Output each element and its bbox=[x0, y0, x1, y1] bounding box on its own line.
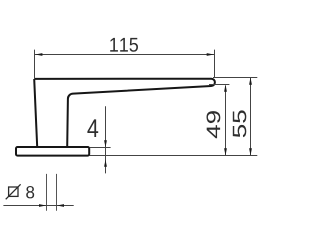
diameter 8: right projection line bbox=[56, 174, 58, 211]
dimension 115: left arrow bbox=[35, 53, 42, 56]
dimension 115: label bbox=[110, 38, 138, 52]
extension line bottom of lever tip (for 49) bbox=[209, 84, 229, 86]
dimension 55: top arrow bbox=[249, 78, 252, 85]
dimension 49: line bbox=[225, 86, 227, 156]
rose plate bbox=[16, 147, 89, 156]
dimension 55: label bbox=[233, 110, 247, 137]
diameter 8: left projection line bbox=[46, 174, 48, 211]
dimension 49: label bbox=[207, 111, 221, 138]
diameter 8: left arrow (pointing right) bbox=[39, 204, 46, 207]
dimension 55: line bbox=[250, 78, 252, 156]
diameter 8: label bbox=[26, 186, 34, 198]
dimension 49: bottom arrow bbox=[224, 148, 227, 155]
dimension 4: upper extension line (rose top) bbox=[90, 147, 111, 149]
diameter 8: square symbol bbox=[9, 187, 18, 196]
dimension 115: line bbox=[35, 54, 214, 56]
dimension 115: left extension line bbox=[34, 50, 36, 79]
dimension 4: lower arrow (pointing up) bbox=[104, 160, 107, 167]
dimension 4: label bbox=[87, 119, 98, 137]
diameter 8: right arrow (pointing left) bbox=[57, 204, 64, 207]
extension line bottom of rose (long, for 49/55/4) bbox=[90, 155, 258, 157]
dimension 4: vertical line bbox=[105, 106, 107, 173]
dimension 55: bottom arrow bbox=[249, 148, 252, 155]
dimension 115: right extension line bbox=[214, 50, 216, 78]
dimension 115: right arrow bbox=[207, 53, 214, 56]
handle lever outline bbox=[34, 79, 215, 147]
dimension 4: upper arrow (pointing down) bbox=[104, 140, 107, 147]
dimension 49: top arrow bbox=[224, 85, 227, 92]
extension line top of lever (for 55) bbox=[213, 77, 257, 79]
diameter 8: symbol diagonal bbox=[6, 184, 21, 199]
diameter 8: dimension line bbox=[3, 205, 73, 207]
